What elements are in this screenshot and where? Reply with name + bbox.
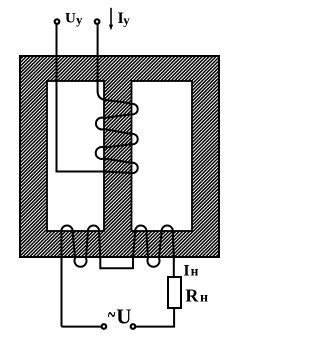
- core left window: [47, 81, 104, 231]
- svg-text:н: н: [191, 263, 199, 278]
- svg-text:~: ~: [108, 300, 116, 330]
- svg-text:R: R: [185, 285, 199, 305]
- svg-text:у: у: [76, 12, 83, 27]
- svg-text:у: у: [123, 13, 130, 28]
- svg-text:U: U: [65, 11, 76, 27]
- svg-text:U: U: [116, 305, 131, 329]
- terminal ~U left: [102, 324, 107, 329]
- arrow Iy: [110, 8, 112, 26]
- magnetic core (hatched): [20, 56, 219, 257]
- wire: bottom left to left ~U terminal: [62, 326, 102, 328]
- wire: left control lead from Uy terminal down and to coil bottom: [57, 24, 107, 172]
- resistor Rn: [168, 277, 181, 308]
- svg-text:н: н: [200, 290, 208, 305]
- working winding (left) on bottom yoke + connector + working winding (right): [61, 225, 173, 326]
- control winding Wy on center leg: [96, 24, 138, 173]
- wire: resistor bottom to right ~U terminal: [136, 308, 174, 327]
- core right window: [132, 81, 193, 231]
- terminal ~U right: [131, 324, 136, 329]
- terminal Uy: [55, 19, 60, 24]
- svg-text:I: I: [183, 262, 189, 279]
- terminal Iy: [95, 19, 100, 24]
